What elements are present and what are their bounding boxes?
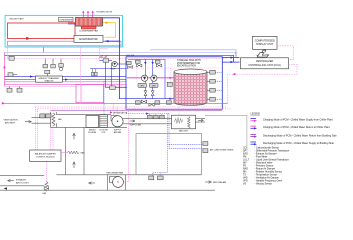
svg-text:DPT: DPT	[243, 150, 248, 152]
svg-text:ATTENUATOR: ATTENUATOR	[114, 111, 128, 114]
svg-text:- Variable Frequency Drive: - Variable Frequency Drive	[255, 179, 283, 182]
svg-text:Charging Mode of PCM - Chilled: Charging Mode of PCM - Chilled Water Ret…	[263, 126, 330, 129]
svg-text:- Carbondioxide Sensor: - Carbondioxide Sensor	[255, 146, 280, 149]
svg-text:EXHAUST: EXHAUST	[16, 178, 27, 181]
svg-text:CONTROL MODULE: CONTROL MODULE	[36, 157, 55, 159]
svg-text:MV: MV	[243, 162, 247, 164]
svg-text:- Flow Meter: - Flow Meter	[255, 155, 268, 158]
svg-text:CONTROLLING UNIT (CCU): CONTROLLING UNIT (CCU)	[248, 64, 280, 67]
svg-text:DISPLAY UNIT: DISPLAY UNIT	[256, 43, 273, 46]
svg-text:PCM IMMERSED FOR: PCM IMMERSED FOR	[177, 63, 201, 65]
svg-text:RAD: RAD	[243, 167, 248, 170]
svg-text:VFD: VFD	[152, 86, 157, 88]
svg-text:PUMP: PUMP	[111, 68, 117, 70]
svg-text:ENCAPSULATION: ENCAPSULATION	[177, 65, 196, 68]
svg-text:- Exhaust Air Damper: - Exhaust Air Damper	[255, 152, 277, 155]
svg-text:RH: RH	[243, 171, 247, 173]
svg-text:BALANCING DAMPER: BALANCING DAMPER	[35, 153, 56, 156]
svg-text:STORAGE TANK WITH: STORAGE TANK WITH	[177, 59, 201, 62]
svg-text:- Liquid Level Sensor/Transduc: - Liquid Level Sensor/Transducer	[255, 158, 289, 161]
svg-text:CHS CHR: CHS CHR	[126, 55, 135, 57]
svg-text:VAV UNIT: VAV UNIT	[179, 130, 189, 133]
svg-text:AIR CONDITIONED SPACE: AIR CONDITIONED SPACE	[210, 149, 234, 152]
svg-text:- Ventilation Air Damper: - Ventilation Air Damper	[255, 176, 280, 179]
svg-text:CHS CHR: CHS CHR	[100, 57, 108, 59]
svg-text:- Differential Pressure Transd: - Differential Pressure Transducer	[255, 149, 290, 152]
svg-text:AIR FAN: AIR FAN	[114, 131, 122, 134]
svg-text:Discharging Mode of PCM - Chil: Discharging Mode of PCM - Chilled Water …	[263, 142, 335, 145]
svg-text:- Return Air Damper: - Return Air Damper	[255, 167, 276, 170]
svg-text:RETURN AIR: RETURN AIR	[213, 181, 227, 184]
svg-text:VS: VS	[243, 183, 247, 185]
svg-text:EVAPORATOR: EVAPORATOR	[79, 37, 97, 41]
svg-text:RAD: RAD	[81, 152, 86, 155]
svg-text:VFD: VFD	[140, 86, 145, 88]
svg-text:Discharging Mode of PCM - Chil: Discharging Mode of PCM - Chilled Water …	[263, 134, 337, 137]
svg-text:STATION: STATION	[45, 80, 54, 83]
svg-text:VAD: VAD	[243, 176, 248, 179]
svg-text:TS: TS	[243, 174, 246, 176]
svg-text:LS,LT: LS,LT	[243, 159, 250, 161]
svg-text:AIR INLET: AIR INLET	[5, 122, 16, 125]
svg-text:- Velocity Sensor: - Velocity Sensor	[255, 182, 273, 185]
svg-text:AIR OUTLET: AIR OUTLET	[16, 181, 30, 184]
svg-text:COMPUTERIZED: COMPUTERIZED	[255, 40, 275, 43]
svg-text:CENTRALIZED: CENTRALIZED	[256, 60, 274, 63]
svg-text:SUPPLY AIR: SUPPLY AIR	[130, 123, 142, 126]
svg-text:- Relative Humidity Sensor: - Relative Humidity Sensor	[255, 170, 283, 173]
svg-text:EAD: EAD	[243, 152, 248, 155]
svg-text:COIL: COIL	[101, 132, 105, 134]
svg-text:CO₂: CO₂	[243, 147, 247, 149]
svg-text:VENTILATION: VENTILATION	[4, 119, 19, 122]
svg-text:CONDENSER FAN: CONDENSER FAN	[79, 30, 98, 33]
svg-text:HOT AIRFLOW EXIT: HOT AIRFLOW EXIT	[97, 10, 113, 13]
svg-text:PLENUM: PLENUM	[88, 132, 96, 134]
svg-text:VFD: VFD	[243, 180, 248, 182]
svg-text:- Temperature Sensor: - Temperature Sensor	[255, 173, 278, 176]
svg-text:PS: PS	[243, 165, 247, 167]
svg-text:ENERGY TRANSFER: ENERGY TRANSFER	[39, 77, 60, 80]
svg-text:Charging Mode of PCM - Chilled: Charging Mode of PCM - Chilled Water Sup…	[263, 119, 333, 122]
svg-text:FM: FM	[243, 156, 246, 158]
svg-text:VAD: VAD	[58, 118, 62, 121]
svg-text:LEGEND: LEGEND	[251, 114, 261, 116]
svg-text:- Motorized Valve: - Motorized Valve	[255, 161, 274, 164]
svg-text:CONDENSER: CONDENSER	[59, 19, 73, 21]
svg-text:CHILLER PLANT: CHILLER PLANT	[9, 17, 24, 20]
svg-text:RETURN AIR FAN: RETURN AIR FAN	[107, 172, 124, 175]
svg-text:- Pressure Sensor: - Pressure Sensor	[255, 164, 274, 167]
